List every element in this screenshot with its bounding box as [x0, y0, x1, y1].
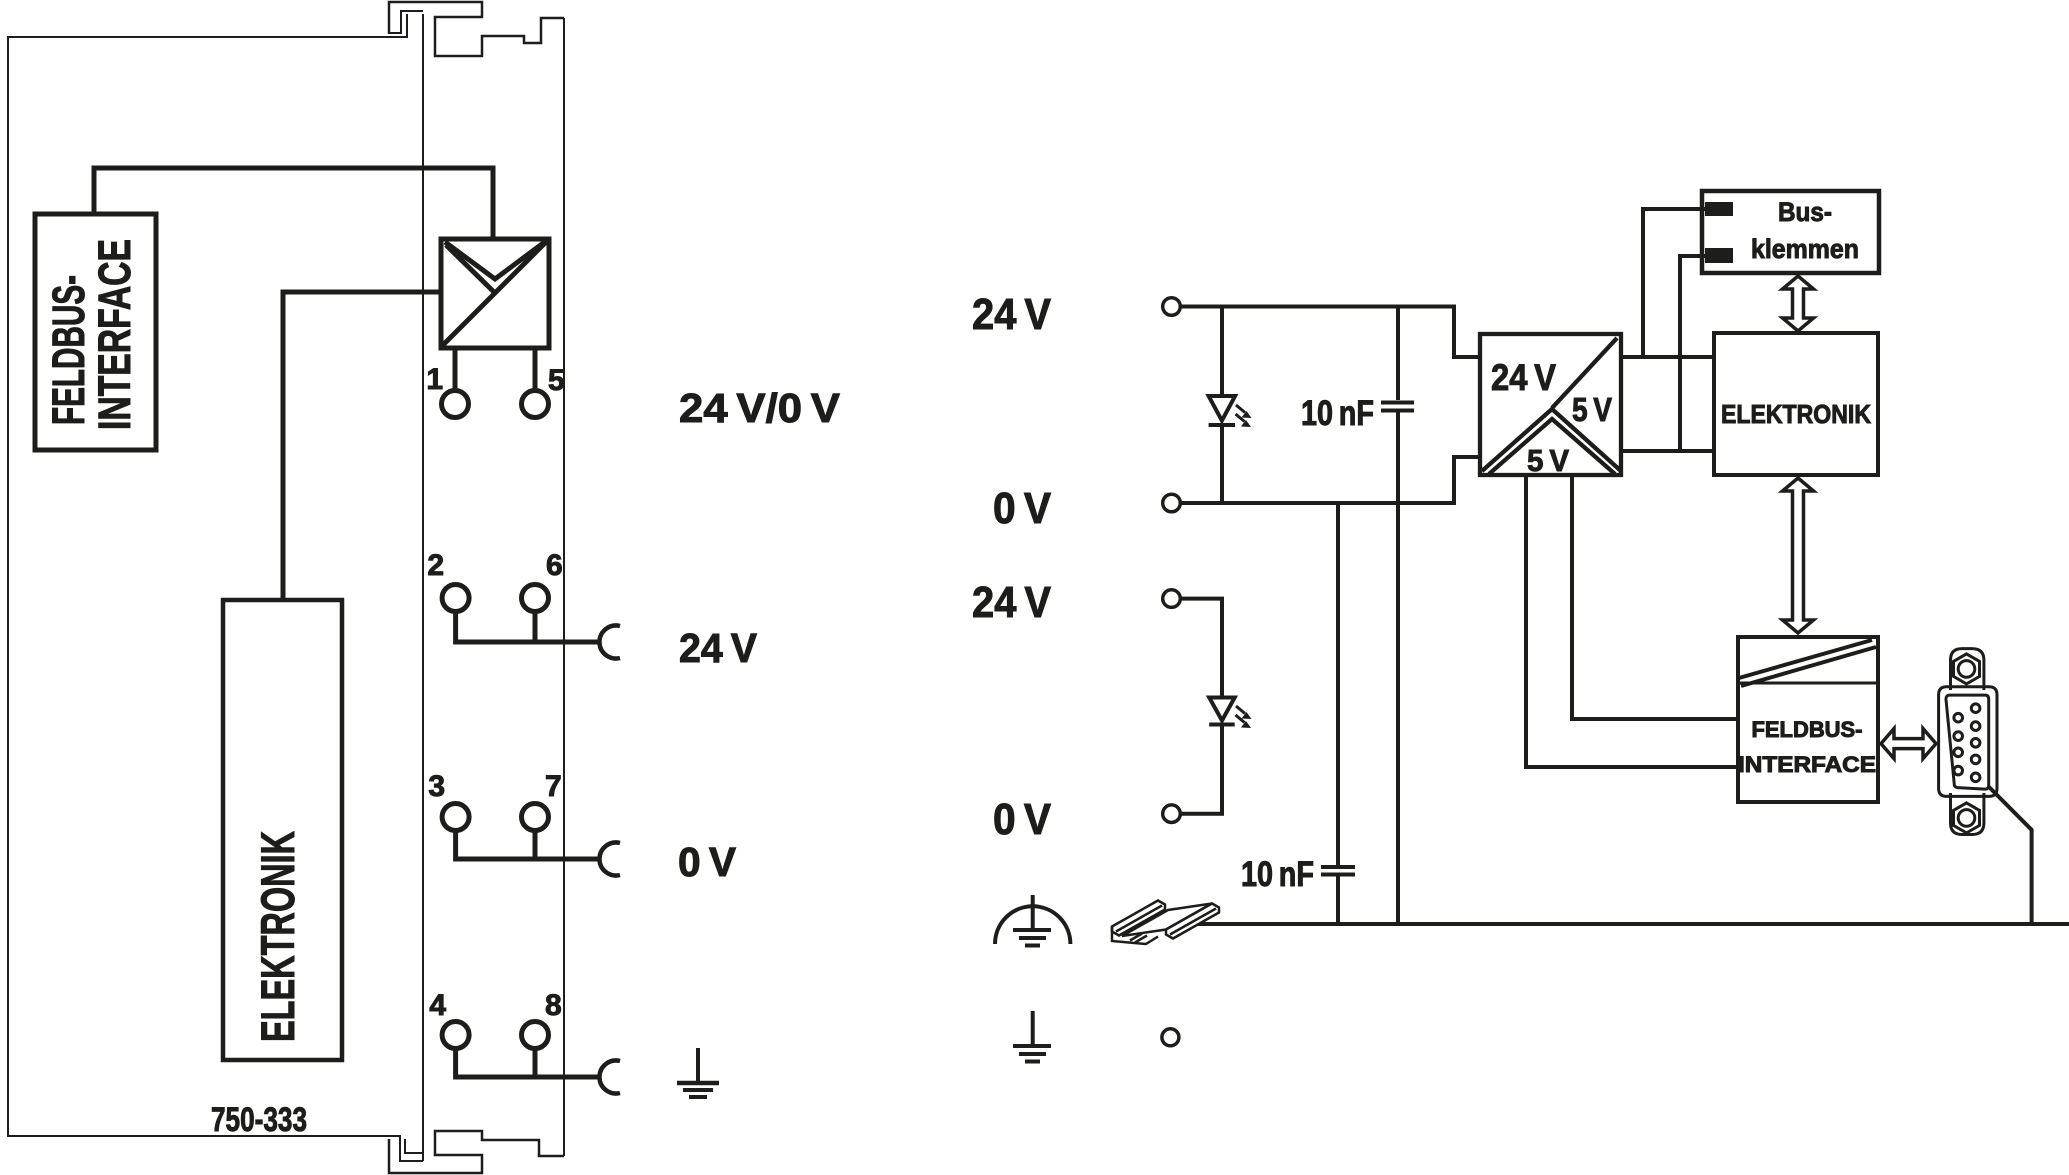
LED1 cathode bar: [1209, 423, 1236, 427]
wire to Busklemmen pin1: [1643, 209, 1705, 357]
svg-text:5 V: 5 V: [1572, 391, 1612, 428]
svg-text:klemmen: klemmen: [1751, 234, 1859, 264]
pin 3 circle: [442, 804, 469, 831]
wire FELDBUS-INTERFACE top to filter: [94, 168, 493, 239]
DC/DC chevron lower: [1489, 419, 1615, 474]
LED2 cathode bar: [1209, 723, 1235, 727]
svg-text:24 V: 24 V: [1491, 357, 1556, 398]
capacitor C1 top wire: [1396, 305, 1400, 401]
capacitor C2 bottom wire to rail: [1336, 877, 1340, 925]
ELEKTRONIK box U11: [223, 600, 342, 1060]
svg-text:INTERFACE: INTERFACE: [1738, 752, 1876, 777]
svg-text:ELEKTRONIK: ELEKTRONIK: [1721, 399, 1871, 429]
module inner-left vertical: [422, 14, 424, 1161]
DB9 connector J1 top tab: [1951, 649, 1984, 690]
DB9 top nut circle: [1958, 661, 1975, 678]
capacitor C2 plates: [1321, 867, 1355, 875]
FELDBUS isolation diagonal lower: [1741, 647, 1876, 686]
Busklemmen pin black 2: [1705, 248, 1733, 263]
arrow ELEKTRONIK-FELDBUS: [1783, 478, 1814, 633]
svg-text:3: 3: [428, 770, 445, 803]
LED2 arrow b: [1236, 715, 1245, 723]
wire DC/DC 5V right to FELDBUS-INTERFACE upper: [1572, 475, 1738, 719]
LED1 anode wire: [1220, 305, 1224, 397]
wire filter left to ELEKTRONIK top: [283, 292, 441, 600]
DC/DC diagonal: [1552, 338, 1617, 408]
svg-text:10 nF: 10 nF: [1241, 855, 1314, 894]
svg-text:24 V: 24 V: [972, 290, 1052, 339]
ground symbol left module: [677, 1048, 719, 1097]
DB9 pins column left: [1954, 713, 1963, 722]
DC/DC converter box U2: [1480, 334, 1621, 475]
pin 4 circle: [442, 1022, 469, 1049]
ground symbol B: [1013, 1011, 1051, 1062]
wire pins 4/8 bus: [453, 1048, 600, 1077]
svg-text:8: 8: [545, 989, 562, 1022]
filter box F1: [441, 239, 549, 348]
LED1 arrow b: [1236, 414, 1245, 422]
connector arc row4: [599, 1061, 620, 1094]
svg-text:24 V/0 V: 24 V/0 V: [679, 385, 841, 431]
wire to Busklemmen pin2: [1680, 256, 1705, 451]
svg-text:5 V: 5 V: [1527, 443, 1569, 478]
FELDBUS isolation diagonal upper: [1739, 640, 1872, 678]
svg-text:FELDBUS-: FELDBUS-: [1752, 717, 1863, 742]
svg-text:Bus-: Bus-: [1778, 197, 1832, 227]
FELDBUS-INTERFACE box U10: [35, 214, 156, 450]
module right vertical: [563, 18, 565, 1156]
pin 2 circle: [442, 585, 469, 612]
DIN rail symbol: [1112, 901, 1219, 945]
LED1 triangle: [1209, 396, 1236, 421]
module bottom latch: [389, 1131, 564, 1173]
capacitor C1 bottom wire to rail: [1396, 413, 1400, 925]
lone terminal circle: [1162, 1029, 1179, 1046]
svg-text:0 V: 0 V: [993, 795, 1052, 844]
svg-text:750-333: 750-333: [211, 1101, 307, 1139]
DB9 flange: [1939, 687, 1997, 797]
connector arc row3: [599, 842, 620, 875]
stub pin1: [453, 348, 458, 392]
DB9 bottom nut circle: [1958, 810, 1975, 827]
arrow FELDBUS-DB9: [1881, 729, 1936, 759]
wire 24V bus to DC/DC top: [1180, 307, 1480, 358]
svg-text:7: 7: [545, 770, 562, 803]
filter chevron upper: [445, 241, 546, 279]
svg-text:0 V: 0 V: [993, 484, 1052, 533]
FELDBUS-INTERFACE box U5: [1738, 637, 1878, 802]
pin 5 circle: [522, 391, 549, 418]
ELEKTRONIK box U4: [1714, 333, 1878, 475]
svg-text:0 V: 0 V: [678, 839, 737, 885]
LED2 arrow a: [1236, 706, 1245, 714]
wire DB9 shield to rail: [1989, 787, 2032, 924]
connector arc row2: [599, 626, 620, 659]
DB9 inner D shell: [1946, 695, 1989, 789]
stub pin5: [533, 348, 538, 392]
pin 6 circle: [522, 585, 549, 612]
DB9 pins column right: [1971, 704, 1980, 713]
terminal 24V upper circle: [1163, 298, 1181, 316]
capacitor C1 plates: [1381, 403, 1414, 411]
DB9 bottom hex nut: [1954, 803, 1980, 833]
wire pins 3/7 bus: [453, 830, 600, 859]
LED1 arrow a: [1236, 405, 1245, 413]
svg-text:FELDBUS-: FELDBUS-: [43, 275, 94, 425]
wire 24V lower to LED2: [1180, 599, 1222, 698]
svg-text:2: 2: [427, 549, 444, 582]
wire 0V down to capacitor C2: [1336, 503, 1340, 865]
ground rail line: [1190, 922, 2069, 926]
terminal 24V lower circle: [1163, 590, 1181, 608]
module top latch inner step: [389, 11, 423, 33]
DB9 top hex nut: [1954, 654, 1980, 684]
terminal 0V upper circle: [1163, 494, 1181, 512]
ground symbol A with arc: [995, 895, 1070, 946]
wire DC/DC to ELEKTRONIK lower: [1621, 449, 1714, 453]
pin 1 circle: [442, 391, 469, 418]
svg-text:INTERFACE: INTERFACE: [89, 239, 140, 430]
module top latch: [389, 2, 564, 56]
svg-text:6: 6: [546, 549, 563, 582]
svg-text:24 V: 24 V: [679, 625, 758, 671]
wire 0V bus to DC/DC bottom: [1180, 457, 1480, 503]
svg-text:24 V: 24 V: [972, 578, 1052, 627]
LED2 cathode wire: [1180, 725, 1222, 814]
module bottom latch inner step: [405, 1139, 423, 1153]
terminal 0V lower circle: [1163, 805, 1181, 823]
LED2 triangle: [1209, 698, 1235, 721]
module outline left/top/bottom (thin): [8, 14, 423, 1161]
arrow Busklemmen-ELEKTRONIK: [1783, 276, 1814, 331]
svg-text:ELEKTRONIK: ELEKTRONIK: [251, 831, 304, 1042]
svg-text:1: 1: [426, 363, 443, 396]
pin 7 circle: [522, 804, 549, 831]
pin 8 circle: [522, 1022, 549, 1049]
svg-text:5: 5: [548, 364, 565, 397]
wire pins 2/6 bus: [453, 611, 600, 642]
DB9 bottom tab: [1951, 793, 1984, 835]
Busklemmen box U3: [1702, 191, 1879, 273]
DC/DC chevron upper: [1482, 409, 1621, 471]
wire DC/DC 5V to ELEKTRONIK upper: [1621, 355, 1714, 359]
FELDBUS isolation strip line: [1738, 682, 1878, 685]
svg-text:10 nF: 10 nF: [1301, 394, 1374, 433]
wire DC/DC 5V left to FELDBUS-INTERFACE lower: [1526, 475, 1738, 767]
filter diagonal: [443, 242, 546, 345]
Busklemmen pin black 1: [1705, 202, 1733, 216]
svg-text:4: 4: [429, 989, 446, 1022]
filter chevron lower-left: [446, 245, 495, 293]
LED1 cathode wire: [1220, 425, 1224, 505]
